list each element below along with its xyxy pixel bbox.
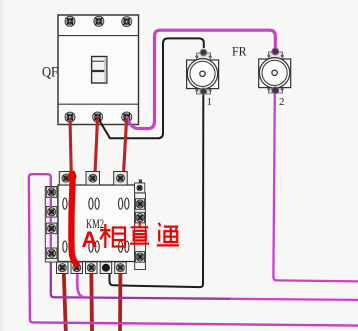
svg-text:FR: FR [232,43,247,58]
contactor KM2 left terminal rail [45,187,58,263]
KM2 inner contact ellipses top row [63,198,129,209]
KM2 right terminal rail [135,193,146,270]
wire: dark red motor lead 2 [89,271,93,331]
QF bottom screw 3 [122,112,132,122]
svg-text:1: 1 [207,96,213,108]
wire: dark red motor lead 3 [118,271,122,331]
KM2 aux terminal top-right [139,180,142,185]
wire: black from FR1 bottom to KM2 bottom terminal 4 [110,95,204,287]
wire: black from QF screw2 to FR1 top [98,38,204,138]
wire: magenta loop from KM2 left top terminal to bottom rail [29,174,358,325]
thick red highlight stroke (A phase through) [71,174,76,265]
KM2 inner contact ellipses bottom row [63,241,129,252]
svg-text:QF: QF [42,65,58,81]
KM2 bottom terminal boxes [57,262,127,274]
thermal relay FR element 2 [259,48,291,94]
wire: magenta from QF screw3 up over to FR2 top [127,30,275,128]
QF toggle switch [92,57,107,84]
KM2 top terminal boxes [59,172,127,186]
QF bottom screw 1 [65,112,75,122]
QF top screw 2 [94,16,104,26]
red annotation char 相 [100,224,125,248]
wire: magenta to horizontal rail (under-rail part) [51,255,232,299]
wire: magenta from FR2 bottom to right edge [273,94,358,281]
QF top screw 3 [122,17,132,27]
svg-text:2: 2 [279,96,285,108]
red annotation char 直 [130,222,149,244]
wire: magenta from KM2 bottom terminal 2 [77,264,86,298]
wire: red phase 3 QF to KM2 [123,119,126,180]
red annotation char 通 [157,223,179,246]
wire: red phase 1 QF to KM2 [70,119,71,177]
contactor KM2 body [58,185,135,262]
QF top screw 1 [65,16,75,26]
thermal relay FR element 1 [187,49,219,95]
wire: dark red motor lead 1 [64,265,66,331]
wire: magenta vertical over left rail [50,188,52,256]
left edge shading [0,0,3,331]
circuit breaker QF body [58,15,139,125]
svg-text:A: A [82,227,98,252]
KM2 left screws [48,188,56,257]
wire: red phase 2 QF to KM2 [95,119,98,177]
QF bottom screw 2 [93,112,103,122]
